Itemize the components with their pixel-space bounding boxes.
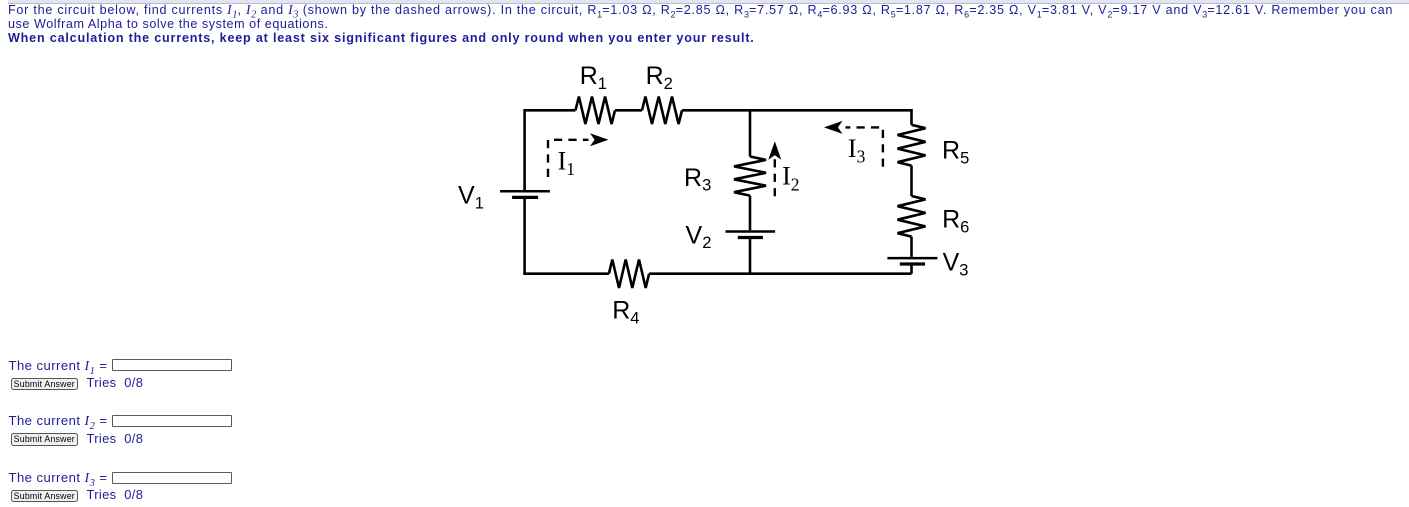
wire right between R5 R6 (910, 166, 913, 196)
input I1 (112, 359, 232, 371)
svg-text:R3: R3 (684, 164, 711, 195)
submit button 3 (11, 490, 79, 503)
wire right lower segment (910, 265, 913, 273)
battery V2 (726, 232, 776, 238)
svg-text:R5: R5 (942, 137, 969, 168)
dashed current path I1 (548, 140, 589, 177)
resistor R1 (576, 97, 616, 125)
svg-text:I3: I3 (848, 134, 866, 167)
svg-text:R4: R4 (612, 297, 639, 328)
svg-text:I1: I1 (558, 146, 575, 179)
svg-text:V2: V2 (686, 221, 712, 252)
svg-text:R1: R1 (580, 62, 607, 93)
resistor R5 (898, 125, 926, 166)
resistor R6 (898, 196, 926, 237)
svg-text:I2: I2 (782, 162, 799, 195)
input I2 (112, 415, 232, 427)
wire top-left segment (525, 110, 576, 190)
wire middle branch to V2 (749, 196, 752, 231)
resistor R4 (609, 260, 649, 288)
submit button 1 (11, 378, 79, 391)
resistor R2 (642, 97, 682, 125)
input I3 (112, 472, 232, 484)
arrowhead I1 (590, 133, 609, 146)
wire middle branch lower (749, 239, 752, 274)
arrowhead I3 (824, 121, 843, 134)
svg-text:V3: V3 (943, 249, 969, 280)
dashed current path I2 (774, 158, 776, 196)
wire middle branch upper (749, 110, 752, 156)
resistor R3 (734, 157, 766, 196)
dashed current path I3 (846, 127, 883, 166)
answer row 3 (9, 471, 108, 485)
battery V1 (500, 191, 550, 197)
svg-text:R6: R6 (942, 205, 969, 236)
arrowhead I2 (768, 141, 781, 160)
answer row 1 (9, 359, 108, 373)
wire bottom-left segment (525, 272, 609, 273)
battery V3 (887, 258, 937, 264)
wire left lower segment (523, 199, 526, 274)
problem statement paragraph (8, 3, 1409, 45)
svg-text:V1: V1 (458, 181, 484, 212)
wire right to V3 (910, 237, 913, 257)
submit button 2 (11, 433, 79, 446)
wire top-right segment (682, 110, 912, 125)
svg-text:R2: R2 (646, 62, 673, 93)
wire between R1 and R2 (615, 109, 642, 112)
top table edge strip (8, 0, 1409, 4)
wire bottom-right segment (649, 272, 911, 275)
answer row 2 (9, 414, 108, 428)
